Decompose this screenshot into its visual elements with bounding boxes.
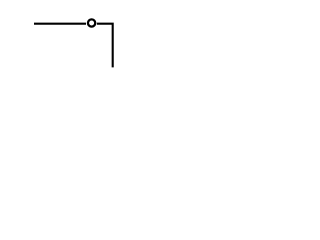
wire	[34, 23, 86, 25]
wire	[97, 24, 113, 68]
node A (open terminal circle)	[88, 19, 95, 26]
